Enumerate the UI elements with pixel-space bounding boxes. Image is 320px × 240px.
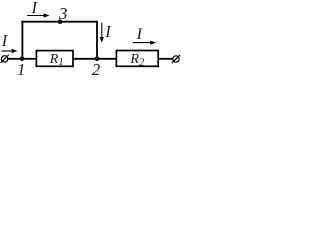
wire: top rail bbox=[21, 21, 98, 23]
terminal left bbox=[1, 55, 9, 63]
svg-text:3: 3 bbox=[58, 4, 68, 23]
wire: node 1 up bbox=[21, 21, 23, 59]
svg-text:1: 1 bbox=[17, 60, 26, 76]
wire: right branch down to node 2 bbox=[96, 21, 98, 59]
wire: R1 to node 2 bbox=[73, 58, 98, 60]
resistor R1 bbox=[36, 51, 73, 67]
arrow: current I through R2 bbox=[133, 41, 156, 45]
wire: node 1 to R1 bbox=[22, 58, 37, 60]
arrow: current I down right branch bbox=[100, 23, 104, 43]
node 1 bbox=[20, 57, 25, 62]
resistor R2 bbox=[116, 51, 158, 67]
arrow: top branch current I bbox=[27, 13, 50, 17]
wire: R2 to right terminal bbox=[158, 58, 173, 60]
svg-text:I: I bbox=[1, 31, 9, 50]
svg-text:I: I bbox=[104, 22, 112, 41]
svg-text:I: I bbox=[31, 0, 39, 17]
node 3 bbox=[58, 19, 63, 24]
arrow: left current I bbox=[2, 49, 18, 53]
wire: node 2 to R2 bbox=[97, 58, 117, 60]
svg-text:2: 2 bbox=[92, 60, 101, 76]
wire: left terminal to node 1 bbox=[8, 58, 23, 60]
terminal right bbox=[172, 55, 180, 63]
svg-text:I: I bbox=[136, 26, 143, 43]
node 2 bbox=[95, 57, 100, 62]
